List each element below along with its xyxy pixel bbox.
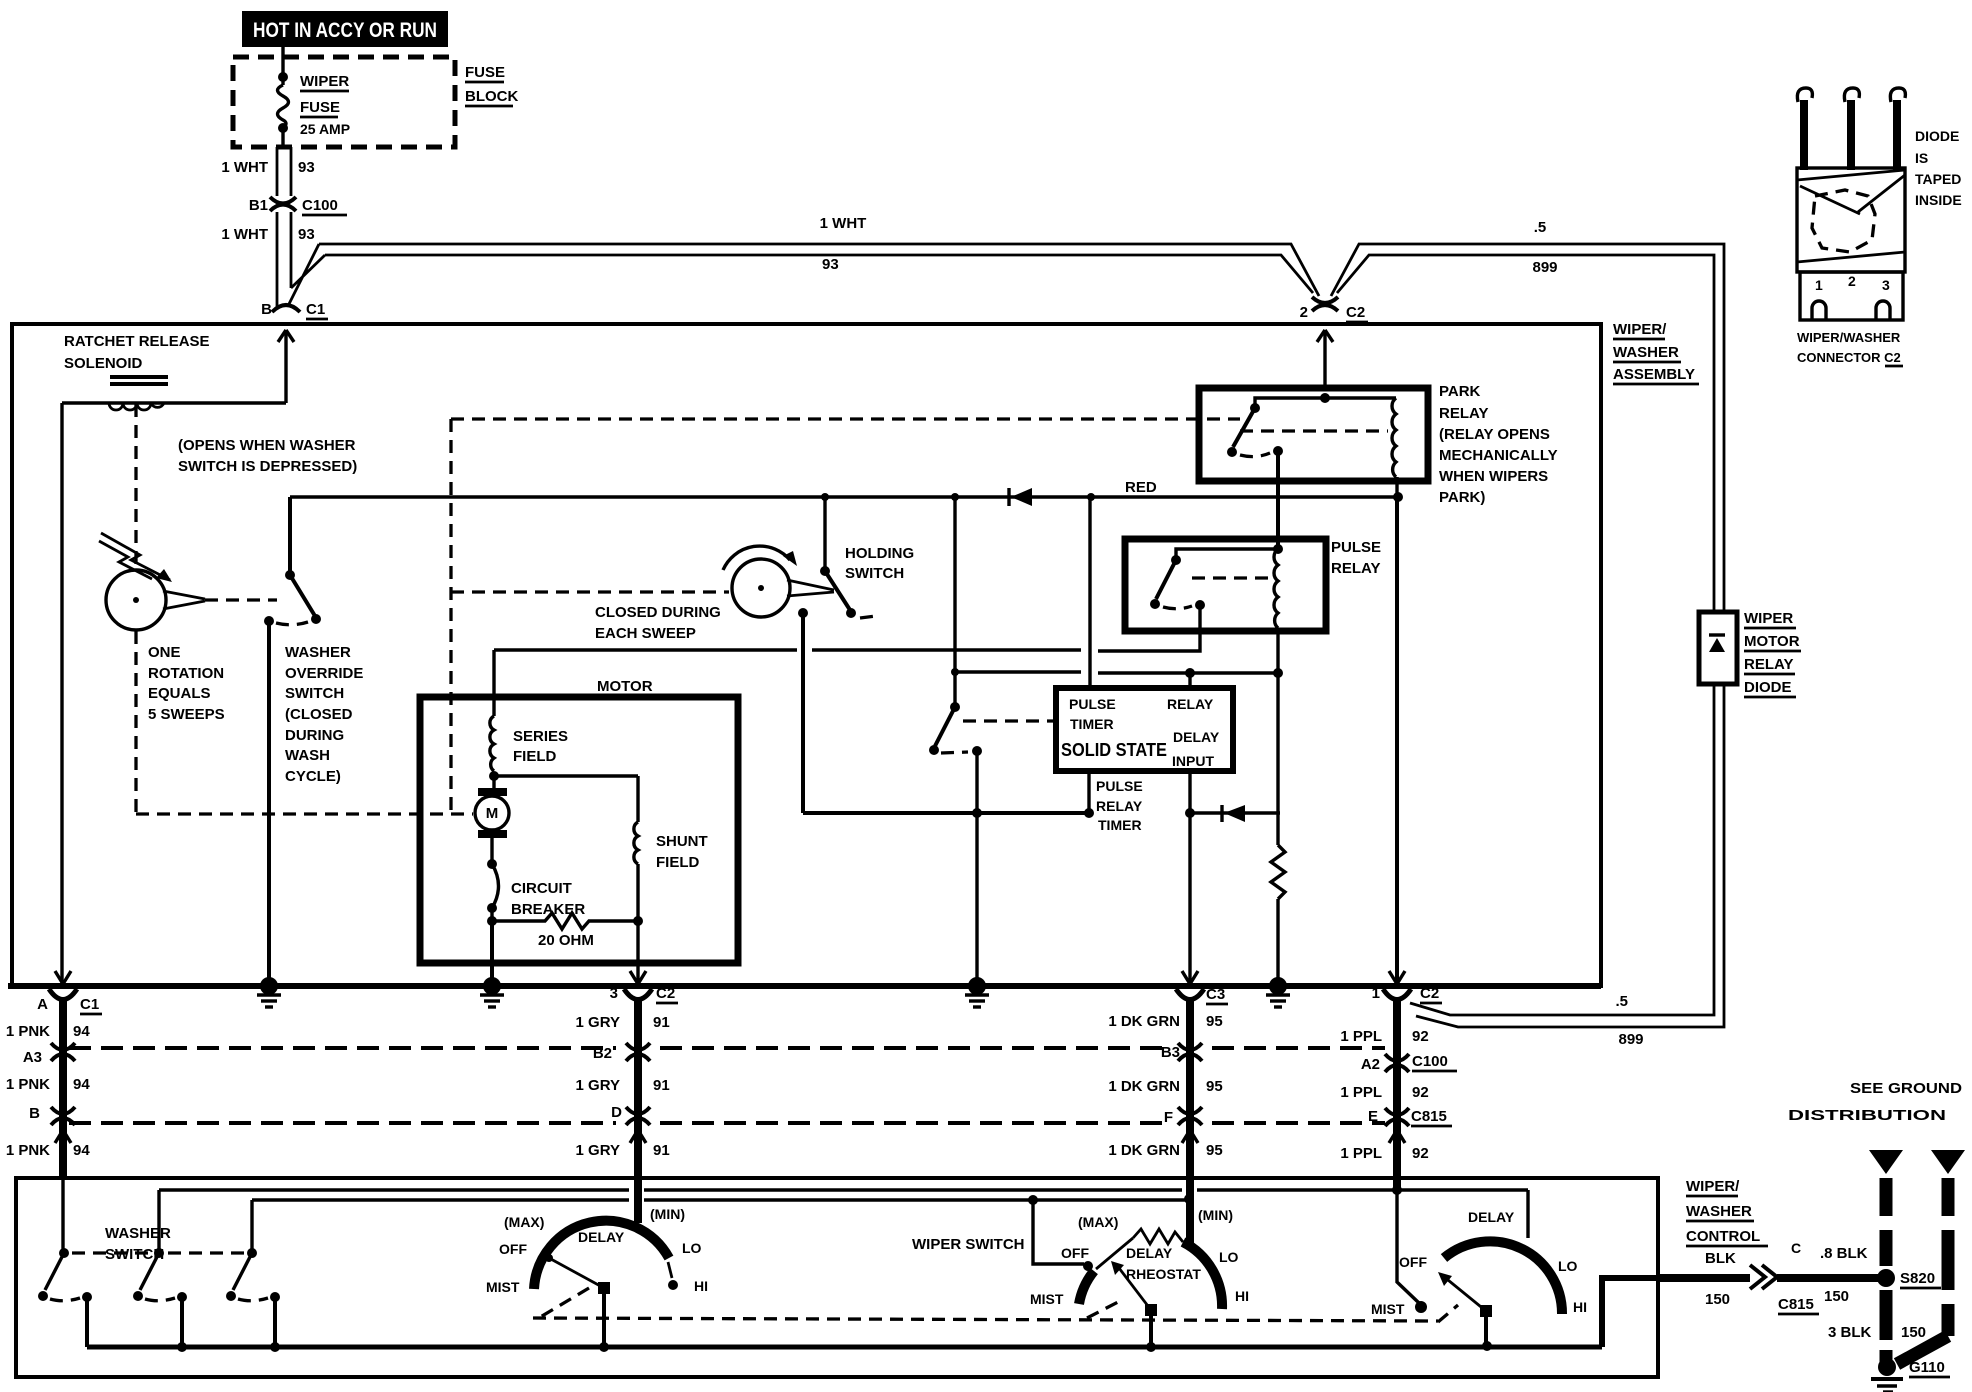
- svg-text:1 DK GRN: 1 DK GRN: [1108, 1078, 1180, 1095]
- svg-text:2: 2: [1848, 273, 1856, 289]
- svg-text:DIODE: DIODE: [1744, 679, 1792, 696]
- svg-text:ONE: ONE: [148, 644, 181, 661]
- svg-text:1 PNK: 1 PNK: [6, 1076, 50, 1093]
- svg-text:94: 94: [73, 1076, 90, 1093]
- svg-text:95: 95: [1206, 1078, 1223, 1095]
- svg-text:94: 94: [73, 1023, 90, 1040]
- svg-text:BREAKER: BREAKER: [511, 901, 585, 918]
- svg-text:SWITCH IS DEPRESSED): SWITCH IS DEPRESSED): [178, 458, 357, 475]
- svg-text:WIPER/: WIPER/: [1686, 1178, 1740, 1195]
- svg-text:A: A: [37, 996, 48, 1013]
- svg-text:DURING: DURING: [285, 727, 344, 744]
- svg-text:C: C: [1791, 1240, 1801, 1256]
- svg-text:WASHER: WASHER: [285, 644, 351, 661]
- svg-text:C815: C815: [1778, 1296, 1814, 1313]
- svg-text:INPUT: INPUT: [1172, 753, 1214, 769]
- svg-text:E: E: [1368, 1108, 1378, 1125]
- svg-text:RED: RED: [1125, 479, 1157, 496]
- svg-text:WHEN WIPERS: WHEN WIPERS: [1439, 468, 1548, 485]
- svg-text:RELAY: RELAY: [1167, 696, 1214, 712]
- svg-text:93: 93: [298, 226, 315, 243]
- svg-text:899: 899: [1618, 1031, 1643, 1048]
- svg-text:LO: LO: [682, 1240, 702, 1256]
- svg-text:S820: S820: [1900, 1270, 1935, 1287]
- svg-text:95: 95: [1206, 1013, 1223, 1030]
- svg-text:SEE GROUND: SEE GROUND: [1850, 1080, 1962, 1097]
- svg-text:MOTOR: MOTOR: [1744, 633, 1800, 650]
- svg-text:RELAY: RELAY: [1439, 405, 1488, 422]
- svg-text:INSIDE: INSIDE: [1915, 192, 1962, 208]
- svg-text:FUSE: FUSE: [300, 99, 340, 116]
- svg-text:1: 1: [1372, 985, 1380, 1002]
- svg-text:TAPED: TAPED: [1915, 171, 1961, 187]
- svg-text:C100: C100: [302, 197, 338, 214]
- svg-text:EQUALS: EQUALS: [148, 685, 211, 702]
- svg-text:WASHER: WASHER: [1686, 1203, 1752, 1220]
- svg-text:F: F: [1164, 1109, 1173, 1126]
- svg-text:B2: B2: [593, 1045, 612, 1062]
- svg-text:1 PPL: 1 PPL: [1340, 1084, 1382, 1101]
- svg-text:FUSE: FUSE: [465, 64, 505, 81]
- svg-text:(MAX): (MAX): [1078, 1214, 1118, 1230]
- svg-text:92: 92: [1412, 1084, 1429, 1101]
- svg-text:DELAY: DELAY: [578, 1229, 625, 1245]
- svg-text:.5: .5: [1534, 219, 1547, 236]
- svg-text:150: 150: [1824, 1288, 1849, 1305]
- svg-text:150: 150: [1901, 1324, 1926, 1341]
- svg-text:1 GRY: 1 GRY: [576, 1014, 620, 1031]
- svg-text:CONNECTOR C2: CONNECTOR C2: [1797, 350, 1901, 365]
- svg-text:1 GRY: 1 GRY: [576, 1142, 620, 1159]
- svg-text:1 GRY: 1 GRY: [576, 1077, 620, 1094]
- svg-text:WIPER SWITCH: WIPER SWITCH: [912, 1236, 1025, 1253]
- svg-text:DIODE: DIODE: [1915, 128, 1959, 144]
- svg-text:1 PPL: 1 PPL: [1340, 1028, 1382, 1045]
- svg-text:RELAY: RELAY: [1744, 656, 1793, 673]
- svg-text:MIST: MIST: [1371, 1301, 1405, 1317]
- svg-text:C2: C2: [1346, 304, 1365, 321]
- svg-text:CIRCUIT: CIRCUIT: [511, 880, 572, 897]
- svg-text:HI: HI: [1573, 1299, 1587, 1315]
- svg-text:B: B: [29, 1105, 40, 1122]
- svg-text:150: 150: [1705, 1291, 1730, 1308]
- svg-text:CYCLE): CYCLE): [285, 768, 341, 785]
- svg-text:MECHANICALLY: MECHANICALLY: [1439, 447, 1558, 464]
- svg-text:LO: LO: [1558, 1258, 1578, 1274]
- svg-text:MOTOR: MOTOR: [597, 678, 653, 695]
- svg-text:DELAY: DELAY: [1468, 1209, 1515, 1225]
- svg-text:SOLENOID: SOLENOID: [64, 355, 143, 372]
- svg-text:WASH: WASH: [285, 747, 330, 764]
- svg-text:(MIN): (MIN): [1198, 1207, 1233, 1223]
- svg-text:.8 BLK: .8 BLK: [1820, 1245, 1868, 1262]
- svg-text:TIMER: TIMER: [1070, 716, 1114, 732]
- svg-text:91: 91: [653, 1014, 670, 1031]
- svg-text:OFF: OFF: [1399, 1254, 1427, 1270]
- svg-text:EACH SWEEP: EACH SWEEP: [595, 625, 696, 642]
- svg-text:(OPENS WHEN WASHER: (OPENS WHEN WASHER: [178, 437, 356, 454]
- svg-text:SWITCH: SWITCH: [105, 1246, 164, 1263]
- svg-text:MIST: MIST: [1030, 1291, 1064, 1307]
- svg-text:20 OHM: 20 OHM: [538, 932, 594, 949]
- svg-text:SWITCH: SWITCH: [285, 685, 344, 702]
- svg-text:WIPER/WASHER: WIPER/WASHER: [1797, 330, 1901, 345]
- svg-text:FIELD: FIELD: [513, 748, 556, 765]
- svg-text:SOLID STATE: SOLID STATE: [1061, 740, 1167, 760]
- svg-text:PULSE: PULSE: [1096, 778, 1143, 794]
- svg-text:WASHER: WASHER: [105, 1225, 171, 1242]
- svg-text:(CLOSED: (CLOSED: [285, 706, 353, 723]
- svg-text:1 WHT: 1 WHT: [820, 215, 867, 232]
- svg-text:DELAY: DELAY: [1126, 1245, 1173, 1261]
- svg-text:TIMER: TIMER: [1098, 817, 1142, 833]
- svg-text:C2: C2: [1420, 985, 1439, 1002]
- svg-text:SWITCH: SWITCH: [845, 565, 904, 582]
- svg-text:(MIN): (MIN): [650, 1206, 685, 1222]
- svg-text:BLK: BLK: [1705, 1250, 1736, 1267]
- svg-text:ROTATION: ROTATION: [148, 665, 224, 682]
- svg-text:A3: A3: [23, 1049, 42, 1066]
- svg-text:HOT IN ACCY OR RUN: HOT IN ACCY OR RUN: [253, 19, 437, 42]
- svg-text:RATCHET RELEASE: RATCHET RELEASE: [64, 333, 210, 350]
- svg-text:(RELAY OPENS: (RELAY OPENS: [1439, 426, 1550, 443]
- svg-text:OVERRIDE: OVERRIDE: [285, 665, 363, 682]
- svg-text:B: B: [261, 301, 272, 318]
- svg-text:HI: HI: [1235, 1288, 1249, 1304]
- svg-text:WIPER: WIPER: [300, 73, 349, 90]
- svg-text:D: D: [611, 1104, 622, 1121]
- svg-text:DELAY: DELAY: [1173, 729, 1220, 745]
- svg-text:3: 3: [1882, 277, 1890, 293]
- svg-text:(MAX): (MAX): [504, 1214, 544, 1230]
- svg-text:OFF: OFF: [499, 1241, 527, 1257]
- svg-text:3 BLK: 3 BLK: [1828, 1324, 1872, 1341]
- svg-text:CONTROL: CONTROL: [1686, 1228, 1760, 1245]
- svg-text:91: 91: [653, 1077, 670, 1094]
- svg-text:1 DK GRN: 1 DK GRN: [1108, 1142, 1180, 1159]
- svg-text:WIPER/: WIPER/: [1613, 321, 1667, 338]
- svg-text:93: 93: [822, 256, 839, 273]
- svg-text:LO: LO: [1219, 1249, 1239, 1265]
- svg-text:92: 92: [1412, 1145, 1429, 1162]
- svg-text:1: 1: [1815, 277, 1823, 293]
- svg-text:PARK): PARK): [1439, 489, 1485, 506]
- svg-text:HI: HI: [694, 1278, 708, 1294]
- svg-text:HOLDING: HOLDING: [845, 545, 914, 562]
- svg-text:25 AMP: 25 AMP: [300, 121, 350, 137]
- svg-text:MIST: MIST: [486, 1279, 520, 1295]
- svg-text:1 WHT: 1 WHT: [221, 159, 268, 176]
- svg-text:PULSE: PULSE: [1331, 539, 1381, 556]
- svg-text:C1: C1: [80, 996, 99, 1013]
- svg-text:A2: A2: [1361, 1056, 1380, 1073]
- svg-text:1 PNK: 1 PNK: [6, 1142, 50, 1159]
- svg-text:92: 92: [1412, 1028, 1429, 1045]
- svg-text:C100: C100: [1412, 1053, 1448, 1070]
- svg-text:PARK: PARK: [1439, 383, 1481, 400]
- svg-text:1 PPL: 1 PPL: [1340, 1145, 1382, 1162]
- svg-text:91: 91: [653, 1142, 670, 1159]
- svg-text:C3: C3: [1206, 986, 1225, 1003]
- svg-text:DISTRIBUTION: DISTRIBUTION: [1788, 1107, 1946, 1124]
- svg-text:2: 2: [1300, 304, 1308, 321]
- svg-text:C2: C2: [656, 985, 675, 1002]
- svg-text:RELAY: RELAY: [1096, 798, 1143, 814]
- svg-text:899: 899: [1532, 259, 1557, 276]
- svg-text:PULSE: PULSE: [1069, 696, 1116, 712]
- svg-text:SERIES: SERIES: [513, 728, 568, 745]
- svg-text:CLOSED DURING: CLOSED DURING: [595, 604, 721, 621]
- svg-text:WIPER: WIPER: [1744, 610, 1793, 627]
- svg-text:WASHER: WASHER: [1613, 344, 1679, 361]
- svg-text:RELAY: RELAY: [1331, 560, 1380, 577]
- svg-text:RHEOSTAT: RHEOSTAT: [1126, 1266, 1201, 1282]
- svg-text:BLOCK: BLOCK: [465, 88, 518, 105]
- svg-text:1 PNK: 1 PNK: [6, 1023, 50, 1040]
- svg-text:.5: .5: [1615, 993, 1628, 1010]
- svg-text:ASSEMBLY: ASSEMBLY: [1613, 366, 1695, 383]
- svg-text:C1: C1: [306, 301, 325, 318]
- svg-text:C815: C815: [1411, 1108, 1447, 1125]
- svg-text:FIELD: FIELD: [656, 854, 699, 871]
- svg-text:B3: B3: [1161, 1044, 1180, 1061]
- svg-text:G110: G110: [1909, 1359, 1945, 1376]
- svg-text:1 DK GRN: 1 DK GRN: [1108, 1013, 1180, 1030]
- svg-text:B1: B1: [249, 197, 268, 214]
- svg-text:IS: IS: [1915, 150, 1928, 166]
- svg-text:OFF: OFF: [1061, 1245, 1089, 1261]
- svg-text:1 WHT: 1 WHT: [221, 226, 268, 243]
- svg-text:5 SWEEPS: 5 SWEEPS: [148, 706, 225, 723]
- svg-text:M: M: [486, 805, 499, 822]
- svg-text:3: 3: [610, 985, 618, 1002]
- svg-text:95: 95: [1206, 1142, 1223, 1159]
- svg-text:SHUNT: SHUNT: [656, 833, 708, 850]
- svg-text:93: 93: [298, 159, 315, 176]
- svg-text:94: 94: [73, 1142, 90, 1159]
